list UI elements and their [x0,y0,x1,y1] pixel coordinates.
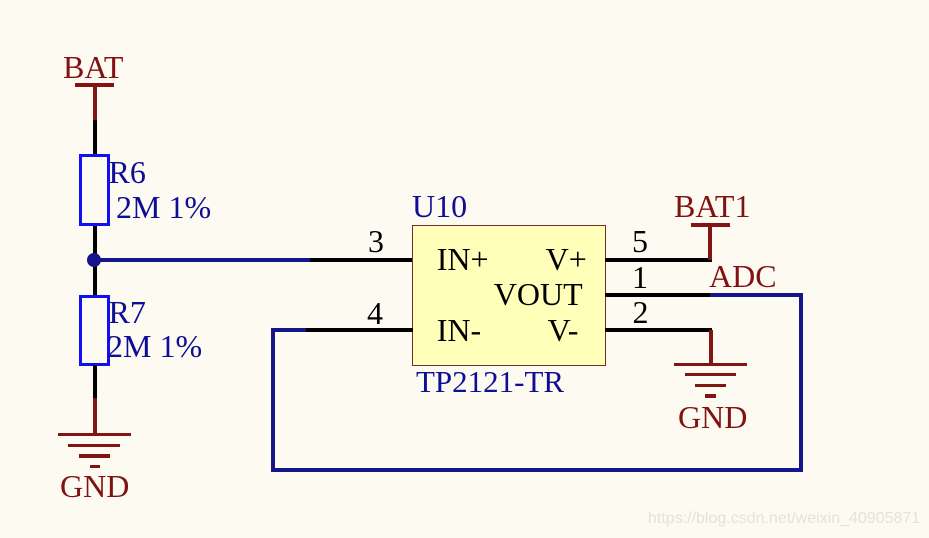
ground GND1 label [60,470,129,502]
ground GND2 bar4 [705,394,716,397]
op-amp U10 body [412,225,606,366]
pin 2 lead [605,328,712,332]
net label ADC [709,260,777,292]
power port BAT bar [75,83,114,87]
wire bottom of feedback loop [271,468,803,472]
ground GND1 bar2 [68,444,120,447]
ground GND2 bar3 [695,384,726,387]
wire node A to pin 3 (net) [94,258,310,262]
pin name V- [548,314,579,346]
wire R7 to GND [93,365,97,399]
pin number 4 [367,297,383,329]
power port BAT1 bar [691,223,730,227]
resistor R6 body [79,154,110,226]
ground GND1 bar1 [58,433,132,436]
pin 5 lead [605,258,712,262]
resistor R7 value 2M 1% [107,330,202,362]
resistor R6 value 2M 1% [116,191,211,223]
wire left vertical of feedback loop [271,328,275,473]
pin number 3 [368,225,384,257]
pin name V+ [546,243,587,275]
node A junction dot [87,253,101,267]
ground GND2 label [678,401,747,433]
ground GND1 bar3 [79,454,110,457]
pin number 2 [633,296,649,328]
pin 3 lead [310,258,413,262]
pin name IN- [437,314,481,346]
resistor R7 designator [109,296,146,328]
pin name IN+ [437,243,489,275]
resistor R6 designator [109,156,146,188]
power port BAT1 stem [708,226,712,260]
wire R6 to node A [93,226,97,295]
power port BAT stem [93,86,97,121]
wire BAT to R6 [93,120,97,155]
ground GND2 bar1 [674,363,747,366]
pin 4 lead [306,328,413,332]
ground GND2 bar2 [685,373,736,376]
wire pin 1 to loop (ADC net) [710,293,803,297]
op-amp U10 designator [412,190,467,222]
ground GND1 bar4 [90,465,100,468]
power port BAT label [63,51,123,83]
ground GND2 stem [709,330,713,364]
pin number 5 [632,225,648,257]
pin number 1 [632,261,648,293]
watermark [648,510,920,528]
op-amp U10 comment TP2121-TR [416,366,564,398]
power port BAT1 label [674,190,750,222]
ground GND1 stem [93,398,97,434]
pin name VOUT [494,278,583,310]
resistor R7 body [79,295,110,366]
wire net to IN- left segment [271,328,306,332]
wire right vertical of feedback loop [799,293,803,472]
pin 1 lead [605,293,710,297]
